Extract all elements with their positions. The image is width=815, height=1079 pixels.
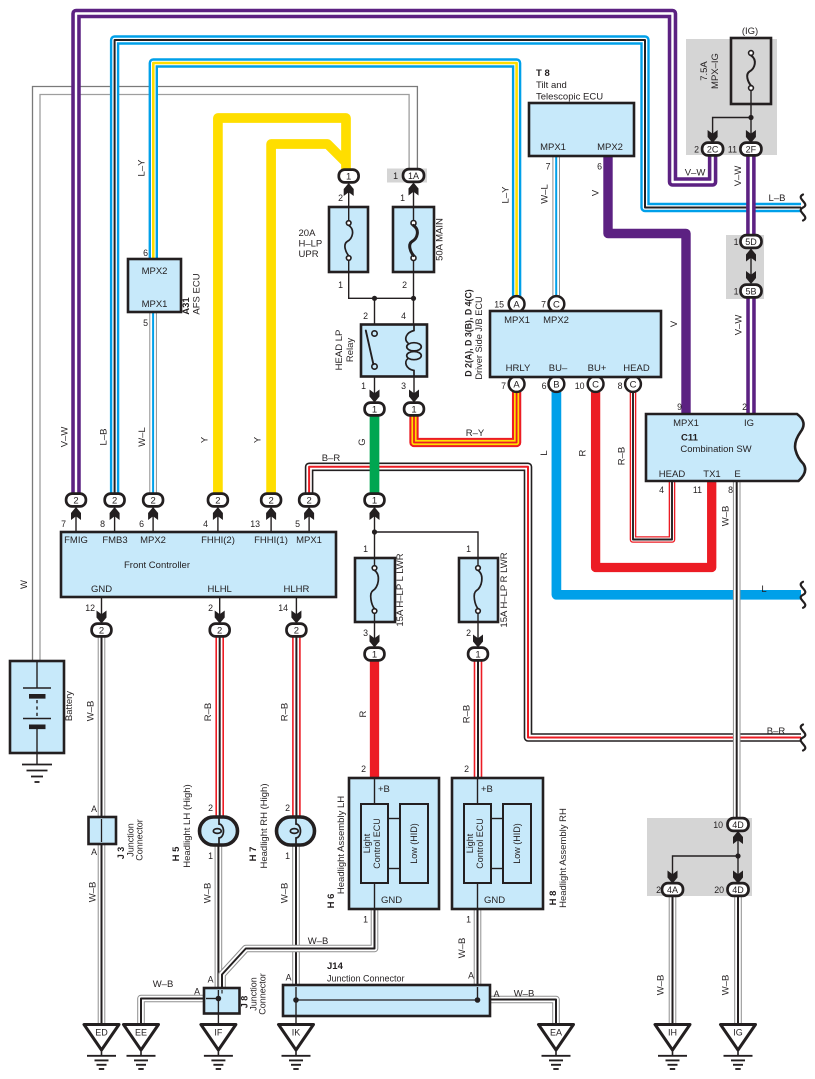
junction dot 4D	[735, 853, 740, 858]
connector circle C (J/B MPX2 top)	[549, 296, 565, 312]
svg-text:Control ECU: Control ECU	[372, 818, 382, 869]
svg-text:2: 2	[338, 193, 343, 203]
ground EA	[539, 1025, 574, 1051]
svg-text:EA: EA	[550, 1028, 562, 1038]
wire 4D(10) to junction dot	[737, 832, 739, 856]
junction dot fuse/relay A	[372, 296, 377, 301]
fuse 15A H-LP L LWR symbol	[372, 566, 377, 571]
svg-text:W–B: W–B	[280, 883, 291, 904]
svg-text:5: 5	[143, 318, 148, 328]
svg-text:AFS ECU: AFS ECU	[192, 273, 203, 314]
svg-text:5: 5	[295, 519, 300, 529]
fuse 20A H-LP UPR symbol	[346, 221, 351, 226]
wire W-B (H8 GND to J14)	[474, 909, 482, 986]
svg-text:2: 2	[150, 495, 155, 506]
svg-text:2: 2	[694, 145, 699, 155]
svg-text:A: A	[91, 847, 97, 857]
connector oval 2 on FC top at x=76	[66, 494, 86, 507]
svg-text:W–B: W–B	[86, 701, 97, 722]
arrow up into FC top connector at x=153.1	[148, 507, 158, 520]
svg-text:2: 2	[99, 625, 104, 636]
wire junction to 2F connector	[750, 118, 752, 143]
svg-text:50A MAIN: 50A MAIN	[435, 218, 446, 261]
svg-text:1: 1	[393, 171, 398, 181]
svg-text:7: 7	[546, 162, 551, 172]
connector oval 2 on FC top at x=217.9	[208, 494, 228, 507]
svg-text:A: A	[513, 380, 520, 391]
svg-text:MPX1: MPX1	[296, 535, 322, 546]
wire V-W (2F to 5D)	[746, 155, 756, 236]
junction connector J14 box	[283, 985, 490, 1016]
svg-text:2: 2	[268, 495, 273, 506]
svg-text:W–L: W–L	[540, 184, 551, 204]
svg-text:2: 2	[112, 495, 117, 506]
wires Front Controller top pins	[75, 505, 77, 532]
fuse 15A H-LP R LWR symbol	[476, 566, 481, 571]
svg-text:MPX–IG: MPX–IG	[710, 53, 721, 89]
wire 50A fuse top pin (1A)	[413, 184, 415, 208]
junction connector J8 internals	[217, 990, 219, 1025]
ground IG	[721, 1025, 756, 1051]
svg-text:W–B: W–B	[203, 883, 214, 904]
svg-text:15: 15	[494, 300, 504, 310]
wire AFS ECU pin 6 stub	[152, 255, 154, 259]
svg-text:6: 6	[542, 381, 547, 391]
svg-text:A: A	[208, 975, 214, 985]
svg-text:A31: A31	[181, 297, 192, 315]
svg-text:1A: 1A	[408, 171, 419, 181]
wire 15A junction branch to right fuse	[375, 532, 479, 558]
svg-text:V: V	[591, 189, 602, 196]
svg-text:9: 9	[677, 402, 682, 412]
junction connector J8 box	[204, 988, 240, 1014]
svg-text:2: 2	[361, 764, 366, 774]
connector oval 4D pin10	[728, 818, 749, 831]
svg-text:H 7: H 7	[248, 847, 259, 862]
svg-text:GND: GND	[381, 895, 402, 906]
junction dot fuse/relay B	[411, 296, 416, 301]
svg-text:1: 1	[372, 649, 377, 660]
svg-text:R: R	[358, 710, 369, 717]
svg-text:R–B: R–B	[280, 703, 291, 721]
svg-text:C: C	[553, 300, 560, 311]
wire W inner strand (battery to 1A)	[40, 95, 409, 662]
svg-text:Low (HID): Low (HID)	[409, 823, 419, 864]
svg-text:FMB3: FMB3	[102, 535, 127, 546]
svg-text:Tilt and: Tilt and	[536, 80, 567, 91]
svg-text:2: 2	[294, 625, 299, 636]
ECU A31 AFS box	[128, 259, 181, 312]
svg-text:Headlight Assembly LH: Headlight Assembly LH	[336, 796, 347, 894]
wire L (J/B BU- to right break)	[556, 392, 801, 595]
svg-text:HRLY: HRLY	[506, 363, 531, 374]
svg-text:10: 10	[713, 820, 723, 830]
wire W outer strand (battery to 1A)	[33, 87, 418, 662]
arrow down into 2F	[746, 130, 756, 143]
svg-text:8: 8	[728, 485, 733, 495]
ground ED	[84, 1025, 119, 1051]
H8 internal wire	[477, 778, 479, 804]
arrow up into fuse connector 1	[344, 183, 354, 196]
svg-text:1: 1	[466, 544, 471, 554]
arrow up into 4D(10)	[733, 831, 743, 844]
connector oval 4D pin20	[728, 883, 749, 896]
svg-text:Combination SW: Combination SW	[680, 444, 751, 455]
fuse 7.5A MPX-IG symbol	[749, 51, 754, 56]
wire G (relay 1 to fuse junction)	[370, 416, 380, 495]
wire W-B (FC GND to ED ground)	[98, 637, 106, 1026]
svg-text:Headlight Assembly RH: Headlight Assembly RH	[558, 808, 569, 908]
svg-text:8: 8	[618, 381, 623, 391]
svg-text:1: 1	[285, 851, 290, 861]
arrow up into connector 1A	[409, 183, 419, 196]
svg-text:IH: IH	[668, 1028, 677, 1038]
svg-text:ED: ED	[95, 1028, 108, 1038]
svg-text:MPX2: MPX2	[142, 266, 168, 277]
headlight H5 bulb	[200, 817, 238, 845]
connector oval 4A pin2	[662, 883, 683, 896]
Front Controller box	[61, 532, 336, 597]
svg-text:Control ECU: Control ECU	[475, 818, 485, 869]
svg-text:15A H–LP R LWR: 15A H–LP R LWR	[499, 552, 510, 627]
svg-text:Light: Light	[465, 833, 475, 853]
svg-text:H 5: H 5	[171, 846, 182, 862]
svg-text:B–R: B–R	[322, 453, 341, 464]
svg-text:W–B: W–B	[721, 506, 732, 527]
connector oval 5D	[741, 235, 762, 248]
fuse 15A H-LP L LWR box	[355, 558, 395, 622]
svg-text:20A: 20A	[299, 228, 317, 239]
svg-text:5D: 5D	[745, 237, 757, 247]
svg-text:Y: Y	[253, 436, 264, 443]
gray highlight box around 4D/4A connectors	[647, 818, 752, 896]
svg-text:J 3: J 3	[116, 847, 126, 860]
svg-text:4: 4	[401, 311, 406, 321]
wire 20A fuse bottom to junction	[349, 272, 414, 298]
headlight H7 filament	[296, 818, 301, 844]
arrow up into FC top connector at x=114.6	[110, 507, 120, 520]
svg-text:L–Y: L–Y	[501, 186, 512, 204]
ground EE	[124, 1025, 159, 1051]
svg-text:L–B: L–B	[769, 193, 786, 204]
svg-text:A: A	[286, 973, 292, 983]
svg-text:2: 2	[466, 628, 471, 638]
svg-text:C: C	[630, 380, 637, 391]
fuse 7.5A MPX-IG box	[731, 38, 771, 104]
wire V (T8 MPX2 to Comb SW MPX1)	[608, 156, 686, 416]
wire R-Y (relay 1 to J/B HRLY)	[414, 392, 517, 443]
svg-text:GND: GND	[91, 584, 112, 595]
svg-text:20: 20	[714, 885, 724, 895]
connector circle C (J/B BU+)	[588, 376, 604, 392]
svg-text:D 2(A), D 3(B), D 4(C): D 2(A), D 3(B), D 4(C)	[464, 289, 474, 377]
junction dot 7.5A fuse output	[748, 115, 753, 120]
svg-text:Headlight RH (High): Headlight RH (High)	[259, 783, 270, 868]
arrow down into 15A L connector	[370, 635, 380, 648]
arrow down into 2C	[708, 130, 718, 143]
svg-text:1: 1	[372, 404, 377, 415]
svg-text:4D: 4D	[732, 820, 744, 830]
svg-text:1: 1	[338, 280, 343, 290]
wires Front Controller bottom pins	[101, 597, 103, 622]
wire Y (FC FHHI(2) to fuse connector)	[218, 118, 346, 495]
wire W-L (T8 MPX1 to J/B MPX2)	[552, 156, 560, 297]
svg-text:12: 12	[85, 603, 95, 613]
svg-text:Driver Side J/B ECU: Driver Side J/B ECU	[474, 296, 484, 379]
junction connector J3 box	[89, 817, 117, 844]
connector oval 2 below FC at x=219.7	[210, 624, 230, 637]
Battery ground symbol	[36, 753, 38, 765]
wire W-B (H6 GND bus to J8)	[222, 909, 375, 989]
connector circle B (J/B BU-)	[549, 376, 565, 392]
svg-text:E: E	[734, 469, 740, 480]
svg-text:2: 2	[363, 311, 368, 321]
svg-text:2: 2	[742, 402, 747, 412]
svg-text:MPX1: MPX1	[673, 418, 699, 429]
svg-text:7.5A: 7.5A	[699, 61, 710, 81]
svg-text:V–W: V–W	[60, 427, 71, 448]
svg-text:6: 6	[597, 162, 602, 172]
connector oval 1 on green wire	[365, 494, 385, 507]
wire 15A junction from green connector	[374, 506, 376, 559]
wire R-B (J/B HEAD to Comb SW HEAD)	[633, 392, 672, 540]
connector oval 2 on FC top at x=271.1	[261, 494, 281, 507]
H6 Light Control ECU box	[361, 804, 388, 883]
svg-text:C: C	[592, 380, 599, 391]
svg-text:6: 6	[143, 248, 148, 258]
svg-text:Headlight LH (High): Headlight LH (High)	[182, 784, 193, 867]
svg-text:Light: Light	[362, 833, 372, 853]
wire R-B (FC HLHL to H5)	[215, 637, 224, 819]
wire W-B (H5 to J8)	[215, 844, 223, 989]
wire R (15A L LWR to H6 +B)	[370, 661, 379, 781]
svg-text:HEAD: HEAD	[623, 363, 650, 374]
H6 Low HID box	[400, 804, 428, 883]
junction connector J3 internal wire	[101, 819, 103, 842]
connector oval 2C	[702, 143, 723, 156]
svg-text:IK: IK	[292, 1028, 301, 1038]
fuse 50A MAIN box	[393, 207, 434, 272]
svg-text:C11: C11	[681, 433, 699, 444]
wire V-W (5B to Comb SW IG)	[746, 296, 756, 416]
wire 7.5A fuse to junction dot	[750, 91, 752, 118]
wire W-B (Comb SW E to 4D)	[733, 482, 741, 819]
svg-text:1: 1	[734, 237, 739, 247]
wire junction to 4D(20) connector	[737, 856, 739, 883]
wire L-Y (AFS ECU 6 to J/B MPX1)	[153, 63, 516, 297]
svg-text:A: A	[513, 300, 520, 311]
break symbol L-B right edge	[801, 195, 806, 221]
svg-text:G: G	[357, 438, 368, 445]
svg-text:2: 2	[73, 495, 78, 506]
svg-text:A: A	[194, 987, 200, 997]
svg-text:(IG): (IG)	[742, 26, 758, 37]
arrow up into FC top connector at x=271.1	[266, 507, 276, 520]
svg-text:1: 1	[346, 171, 351, 182]
svg-text:R–B: R–B	[617, 447, 628, 465]
Combination SW C11 box	[646, 414, 805, 481]
svg-text:T 8: T 8	[536, 68, 550, 79]
wire 20A fuse top pin	[348, 184, 350, 207]
svg-text:4A: 4A	[667, 885, 678, 895]
svg-text:W–B: W–B	[153, 979, 174, 990]
wire W-B (EE ground to J8)	[141, 999, 205, 1026]
svg-text:+B: +B	[481, 784, 493, 795]
junction dot 15A branch	[372, 529, 377, 534]
wire Y (FC FHHI(1) merging)	[271, 144, 346, 495]
connector oval 2F	[740, 143, 761, 156]
svg-text:MPX1: MPX1	[142, 299, 168, 310]
wire R-B (15A R LWR to H8 +B)	[474, 661, 483, 781]
svg-text:Front Controller: Front Controller	[124, 560, 190, 571]
wire junction to 2C connector	[713, 118, 751, 143]
ECU T8 Tilt and Telescopic box	[529, 103, 634, 156]
break symbol B-R right edge	[801, 725, 806, 751]
svg-text:R–B: R–B	[203, 703, 214, 721]
svg-text:4: 4	[659, 485, 664, 495]
svg-text:11: 11	[728, 145, 737, 155]
gray label background for connector 1A	[387, 169, 427, 183]
connector oval 1 below 15A L fuse	[365, 648, 385, 661]
svg-text:W: W	[19, 580, 30, 589]
fuse 20A H-LP UPR box	[329, 207, 368, 272]
connector oval 1 below relay pin1	[365, 403, 385, 416]
svg-text:2: 2	[464, 764, 469, 774]
arrow down into relay connector 3	[409, 390, 419, 403]
wire junction to relay pin 2	[374, 298, 376, 324]
svg-text:2: 2	[285, 803, 290, 813]
svg-text:J14: J14	[327, 961, 344, 972]
headlight H5 filament	[219, 818, 224, 844]
svg-text:A: A	[91, 804, 97, 814]
double arrow head up into 5D	[746, 249, 756, 262]
svg-text:1: 1	[363, 915, 368, 925]
wire W-L (AFS ECU 5 to FC MPX2)	[149, 313, 157, 494]
H6 internal wire	[374, 778, 376, 804]
wire R (J/B BU+ to Comb SW TX1)	[596, 392, 712, 568]
svg-text:2: 2	[208, 803, 213, 813]
fuse 15A H-LP R LWR box	[459, 558, 498, 622]
svg-text:IG: IG	[733, 1028, 743, 1038]
wire link 5D to 5B with double arrow	[750, 249, 752, 283]
Headlight Assembly LH H6 box	[349, 778, 439, 909]
wire W-B (4D to IG ground)	[734, 895, 742, 1025]
svg-text:B–R: B–R	[767, 726, 786, 737]
arrow down into 15A R connector	[473, 635, 483, 648]
Battery internals	[36, 661, 38, 688]
wire 50A fuse bottom through junction to relay pin 4	[413, 272, 415, 325]
svg-text:L–Y: L–Y	[137, 159, 148, 177]
svg-text:HLHR: HLHR	[283, 584, 309, 595]
svg-text:3: 3	[363, 628, 368, 638]
connector oval 2 on FC top at x=114.6	[105, 494, 125, 507]
ECU Driver Side J/B box	[490, 311, 661, 377]
svg-text:2F: 2F	[746, 144, 757, 154]
H6 internal links	[388, 818, 400, 820]
wire W-B (J14 to EA ground)	[489, 1000, 556, 1026]
svg-text:H–LP: H–LP	[299, 239, 323, 250]
svg-text:Junction Connector: Junction Connector	[327, 974, 405, 984]
svg-text:6: 6	[139, 519, 144, 529]
svg-text:FHHI(1): FHHI(1)	[254, 535, 288, 546]
svg-text:Relay: Relay	[345, 338, 356, 363]
ground IF	[201, 1025, 236, 1051]
svg-text:2C: 2C	[707, 144, 719, 154]
connector oval 1 below relay pin3	[404, 403, 424, 416]
svg-text:MPX1: MPX1	[540, 142, 566, 153]
svg-text:A: A	[468, 971, 474, 981]
svg-text:1: 1	[734, 287, 739, 297]
svg-text:2: 2	[402, 280, 407, 290]
svg-text:MPX1: MPX1	[504, 315, 530, 326]
svg-text:HEAD LP: HEAD LP	[334, 330, 345, 371]
connector circle A (J/B HRLY)	[509, 376, 525, 392]
svg-text:V–W: V–W	[685, 168, 706, 179]
connector oval 2 on FC top at x=153.1	[143, 494, 163, 507]
connector circle A (J/B MPX1 top)	[509, 296, 525, 312]
svg-text:10: 10	[575, 381, 585, 391]
svg-text:HLHL: HLHL	[208, 584, 232, 595]
arrow up into FC top connector at x=76	[71, 507, 81, 520]
connector oval 1 below 15A R fuse	[468, 648, 488, 661]
arrow up into FC top connector at x=217.9	[213, 507, 223, 520]
svg-text:7: 7	[541, 300, 546, 310]
svg-text:13: 13	[250, 519, 260, 529]
svg-text:V: V	[669, 320, 680, 327]
svg-text:Battery: Battery	[64, 691, 75, 721]
svg-text:1: 1	[400, 193, 405, 203]
svg-text:FMIG: FMIG	[64, 535, 88, 546]
svg-text:W–B: W–B	[721, 975, 732, 996]
wire B-R (FC MPX1 to right break)	[309, 467, 801, 738]
svg-text:2: 2	[217, 625, 222, 636]
wire 15A H-LP R LWR bottom pin	[477, 622, 479, 647]
arrow down into FC bottom connector at x=101.5	[97, 611, 107, 624]
arrow down into FC bottom connector at x=296.4	[291, 611, 301, 624]
svg-text:5B: 5B	[745, 286, 756, 296]
wire W-B (H7 to J14)	[292, 844, 300, 986]
connector oval 2 below FC at x=101.5	[92, 624, 112, 637]
junction connector J14 internals	[295, 987, 297, 1025]
svg-text:W–B: W–B	[88, 882, 99, 903]
wire AFS ECU pin 5 stub	[152, 312, 154, 318]
svg-text:BU+: BU+	[588, 363, 607, 374]
Battery box	[10, 661, 64, 753]
H8 Low HID box	[503, 804, 531, 883]
svg-text:1: 1	[411, 404, 416, 415]
arrow down into relay connector 1	[370, 390, 380, 403]
svg-text:3: 3	[401, 381, 406, 391]
arrow down into FC bottom connector at x=219.7	[215, 611, 225, 624]
svg-text:R–B: R–B	[462, 705, 473, 723]
svg-text:TX1: TX1	[703, 469, 720, 480]
svg-text:11: 11	[693, 485, 702, 495]
svg-text:W–B: W–B	[656, 975, 667, 996]
break symbol L right edge	[801, 582, 806, 608]
svg-text:Connector: Connector	[258, 973, 268, 1015]
svg-text:W–B: W–B	[308, 936, 329, 947]
wire junction to 4A connector	[673, 856, 739, 883]
svg-text:L: L	[539, 450, 550, 455]
double arrow head down into 5B	[746, 271, 756, 284]
svg-text:HEAD: HEAD	[659, 469, 686, 480]
svg-text:2: 2	[215, 495, 220, 506]
svg-text:R: R	[578, 449, 589, 456]
svg-text:B: B	[553, 380, 559, 391]
svg-text:MPX2: MPX2	[597, 142, 623, 153]
connector oval 1 above 20A fuse	[339, 170, 359, 183]
svg-text:MPX2: MPX2	[140, 535, 166, 546]
